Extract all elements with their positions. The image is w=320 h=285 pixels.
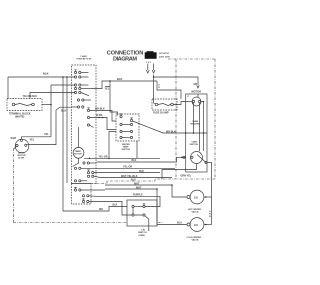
- switch arm: [197, 155, 206, 163]
- svg-text:VALVE: VALVE: [192, 239, 200, 242]
- label BLK on row-8 wire: [139, 170, 144, 173]
- cold water valve: [190, 218, 204, 232]
- wire timer to BLK junction: [92, 81, 158, 89]
- switch output terminal: [205, 161, 207, 163]
- wire filter to motor: [174, 102, 186, 105]
- svg-text:PURPLE: PURPLE: [133, 194, 143, 197]
- svg-text:YEL-OR: YEL-OR: [99, 156, 108, 159]
- timer contact row short: [87, 124, 89, 126]
- svg-text:COLD WATER: COLD WATER: [187, 236, 202, 239]
- long wire WHT to cold valve: [105, 189, 187, 225]
- svg-text:MOTOR: MOTOR: [74, 154, 82, 156]
- timer motor circle: [15, 139, 29, 153]
- label BLU: [131, 178, 136, 181]
- timer contact row 5: [74, 91, 76, 93]
- cabinet boundary lower right: [155, 178, 215, 180]
- wire term block right to timer: [42, 104, 51, 106]
- wire to filter area: [157, 81, 181, 99]
- cabinet boundary top: [168, 58, 215, 60]
- svg-text:BLK: BLK: [139, 170, 144, 173]
- svg-text:SWITCH: SWITCH: [138, 232, 147, 234]
- console boundary steps: [96, 179, 155, 184]
- svg-text:TEMP: TEMP: [123, 147, 130, 149]
- timer contact W-BK staircase: [87, 116, 89, 118]
- svg-text:(2 SP): (2 SP): [18, 158, 24, 160]
- wire OR to motor: [154, 75, 198, 86]
- svg-text:WHT-YEL-BLK: WHT-YEL-BLK: [121, 175, 138, 178]
- label CENT SWITCH: [190, 141, 199, 146]
- svg-text:WH-BLK: WH-BLK: [95, 108, 105, 111]
- svg-text:FUSE 30 AMP: FUSE 30 AMP: [153, 112, 169, 115]
- svg-text:MOTOR: MOTOR: [192, 90, 202, 94]
- wire motor top riser: [22, 137, 52, 139]
- temp switch pole R1: [130, 119, 132, 121]
- console boundary vertical: [175, 59, 177, 179]
- svg-text:YEL: YEL: [105, 88, 110, 91]
- svg-text:BLK: BLK: [61, 109, 66, 113]
- wire N down to filter: [153, 77, 155, 99]
- cabinet boundary dash-dot: [14, 59, 216, 223]
- svg-text:LID: LID: [142, 230, 146, 232]
- main winding wire WH-BLK: [186, 132, 207, 134]
- timer contact row 1: [74, 71, 76, 73]
- wire YEL-OR mid: [84, 157, 160, 159]
- BLK label left of timer: [61, 109, 66, 113]
- timer connector row 13 and wire to lid switch lower pole: [82, 200, 84, 202]
- svg-text:VALVE: VALVE: [192, 211, 200, 214]
- long wire WHT-YEL-BLK: [100, 177, 172, 179]
- cabinet boundary bottom: [14, 222, 164, 224]
- svg-text:SWITCH: SWITCH: [190, 144, 199, 146]
- svg-text:WHT: WHT: [11, 137, 17, 140]
- svg-text:WATER: WATER: [122, 143, 130, 146]
- svg-text:1 2 3: 1 2 3: [146, 62, 152, 64]
- timer cam switch row 9: [87, 175, 89, 177]
- timer cam switch row 8 and wire BLK: [87, 172, 89, 174]
- motor box: [186, 94, 207, 172]
- timer box: [72, 65, 97, 184]
- timer contact row 3: [74, 84, 76, 86]
- power lead L1: [147, 64, 149, 71]
- label YEL-OR on timer-motor bus: [99, 156, 108, 159]
- label YEL-OR on row-7 wire: [123, 166, 132, 169]
- winding leads: [194, 103, 200, 152]
- wire lid row1 right to purple: [96, 196, 160, 206]
- timer contact row 4: [74, 87, 76, 89]
- svg-text:BLK: BLK: [113, 204, 118, 207]
- wire BLK top left: [8, 76, 75, 78]
- cabinet boundary left: [13, 149, 15, 223]
- svg-text:HOT WATER: HOT WATER: [188, 208, 201, 211]
- temp switch pole L1: [120, 115, 122, 117]
- svg-text:CENT: CENT: [192, 141, 199, 143]
- centrifugal start switch: [191, 152, 203, 164]
- diagonal wire to motor WH-BLK: [133, 121, 186, 133]
- wire temp switch bottom: [136, 141, 138, 158]
- wire term block top to timer row: [30, 93, 75, 99]
- svg-text:220V 2198: 220V 2198: [159, 56, 170, 58]
- timer connector row 12 feeding PURPLE wire: [82, 195, 84, 197]
- vertical wires left of timer: [63, 77, 127, 211]
- power lead N: [153, 64, 155, 71]
- part number block: [145, 52, 157, 59]
- svg-text:WH-BLK: WH-BLK: [166, 130, 176, 133]
- cabinet boundary right: [214, 59, 216, 179]
- svg-text:PUSH IN TO ST: PUSH IN TO ST: [77, 58, 93, 60]
- svg-text:WINDING: WINDING: [191, 124, 201, 126]
- wire down to terminal block: [7, 77, 9, 99]
- overload protector: [192, 97, 201, 106]
- long wire WHT to hot valve: [105, 185, 187, 197]
- svg-text:DIAGRAM: DIAGRAM: [113, 56, 137, 62]
- svg-text:YEL: YEL: [44, 133, 49, 136]
- label WH-BLK: [166, 130, 176, 133]
- svg-text:OR: OR: [194, 83, 198, 86]
- svg-text:BLK: BLK: [132, 159, 137, 162]
- riser x56 timer to motor: [28, 107, 72, 144]
- timer connector row 11 and wire to WHT bus: [74, 189, 76, 191]
- svg-text:110: 110: [194, 224, 199, 227]
- svg-text:SWITCH: SWITCH: [122, 149, 131, 151]
- water temp switch box: [116, 114, 139, 141]
- noise filter box: [152, 99, 177, 110]
- hot water valve: [190, 190, 204, 204]
- svg-text:WHT: WHT: [134, 182, 140, 185]
- svg-text:W-BK: W-BK: [96, 114, 103, 117]
- title CONNECTION DIAGRAM: [107, 51, 144, 63]
- long wire BLK: [97, 157, 186, 162]
- svg-text:MAIN: MAIN: [193, 120, 199, 123]
- label MAIN WINDING: [191, 120, 201, 126]
- wire junction to temp switch: [110, 81, 118, 116]
- timer contact row 2: [74, 76, 76, 78]
- switch output to valves: [207, 163, 212, 225]
- wire temp switch left down: [109, 132, 116, 159]
- svg-text:BLU: BLU: [177, 221, 182, 224]
- timer cam switch row 10: [74, 180, 76, 182]
- svg-text:YEL: YEL: [30, 138, 35, 141]
- wire motor left down: [14, 147, 17, 150]
- svg-text:BLK: BLK: [117, 77, 122, 81]
- temp switch contact arms: [122, 124, 130, 126]
- svg-text:(WHITE): (WHITE): [15, 116, 24, 119]
- timer contact WH-BLK staircase: [87, 109, 89, 111]
- svg-text:YEL-OR: YEL-OR: [123, 166, 132, 169]
- timer cam switch row 7 and wire YEL-OR: [74, 167, 76, 169]
- svg-text:BLK: BLK: [43, 72, 49, 76]
- lid switch box: [127, 200, 157, 226]
- svg-text:WHT: WHT: [136, 186, 142, 189]
- svg-text:110: 110: [194, 196, 199, 199]
- timer cam switch row 6 and wire BLK to motor switch feed: [83, 162, 85, 164]
- start winding lead to switch: [203, 133, 205, 151]
- svg-text:GRN-YEL: GRN-YEL: [181, 175, 192, 178]
- timer motor in timer: [73, 147, 84, 158]
- svg-text:LR 56734: LR 56734: [159, 52, 169, 55]
- timer mid contacts: [77, 99, 79, 101]
- svg-text:WH: WH: [99, 208, 103, 211]
- node junctions on BLK wire: [62, 76, 64, 78]
- vertical riser x51: [50, 85, 52, 137]
- motor ground wire GRN-YEL: [162, 164, 197, 180]
- svg-text:(GRN): (GRN): [139, 235, 146, 237]
- terminal block: [7, 99, 42, 111]
